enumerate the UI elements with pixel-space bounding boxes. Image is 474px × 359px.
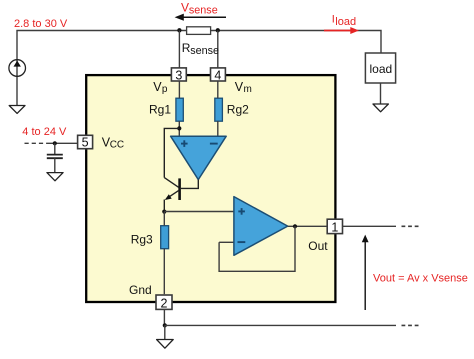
svg-text:Rg3: Rg3 bbox=[131, 233, 153, 247]
svg-text:5: 5 bbox=[82, 135, 89, 149]
svg-text:load: load bbox=[370, 62, 393, 76]
svg-text:m: m bbox=[244, 84, 252, 95]
svg-text:V: V bbox=[153, 80, 162, 94]
svg-text:4 to 24 V: 4 to 24 V bbox=[22, 126, 67, 138]
svg-text:sense: sense bbox=[190, 45, 219, 57]
svg-text:4: 4 bbox=[214, 68, 221, 82]
svg-text:Rg2: Rg2 bbox=[227, 102, 249, 116]
svg-text:1: 1 bbox=[331, 221, 338, 235]
svg-text:Gnd: Gnd bbox=[129, 283, 152, 297]
svg-text:Out: Out bbox=[308, 239, 328, 253]
svg-text:load: load bbox=[335, 16, 356, 28]
svg-text:p: p bbox=[162, 84, 168, 95]
svg-text:2.8 to 30 V: 2.8 to 30 V bbox=[14, 18, 68, 30]
svg-text:V: V bbox=[181, 1, 189, 15]
svg-text:V: V bbox=[235, 80, 244, 94]
svg-text:2: 2 bbox=[161, 297, 168, 311]
svg-text:sense: sense bbox=[189, 5, 218, 17]
svg-text:Vout = Av x Vsense: Vout = Av x Vsense bbox=[373, 272, 468, 284]
svg-text:CC: CC bbox=[110, 140, 124, 151]
svg-text:3: 3 bbox=[175, 68, 182, 82]
svg-text:Rg1: Rg1 bbox=[149, 102, 171, 116]
